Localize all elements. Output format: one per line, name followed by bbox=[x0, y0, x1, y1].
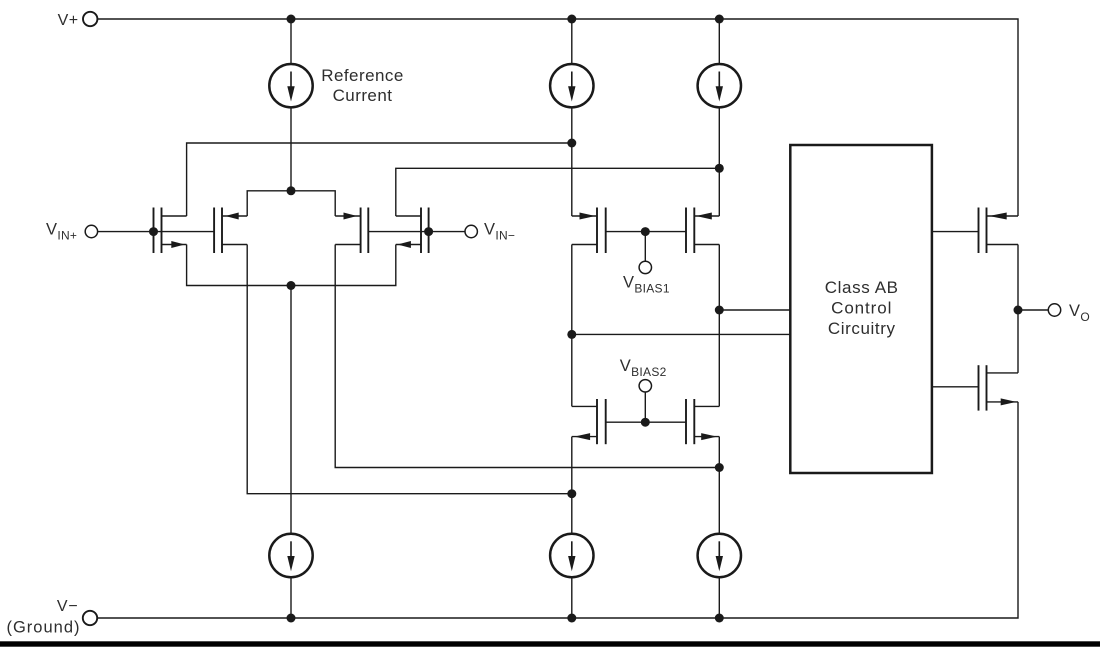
svg-text:Reference: Reference bbox=[321, 66, 403, 85]
svg-text:Control: Control bbox=[831, 298, 892, 317]
svg-text:VBIAS1: VBIAS1 bbox=[623, 274, 670, 296]
svg-text:V−: V− bbox=[57, 598, 79, 615]
svg-text:VO: VO bbox=[1069, 302, 1090, 324]
svg-text:Current: Current bbox=[333, 86, 393, 105]
svg-text:VIN−: VIN− bbox=[484, 221, 515, 243]
svg-text:VBIAS2: VBIAS2 bbox=[620, 357, 667, 379]
svg-text:Circuitry: Circuitry bbox=[828, 319, 896, 338]
svg-text:(Ground): (Ground) bbox=[6, 619, 80, 637]
svg-text:V+: V+ bbox=[58, 12, 79, 29]
svg-text:VIN+: VIN+ bbox=[46, 221, 77, 243]
svg-text:Class AB: Class AB bbox=[825, 278, 899, 297]
